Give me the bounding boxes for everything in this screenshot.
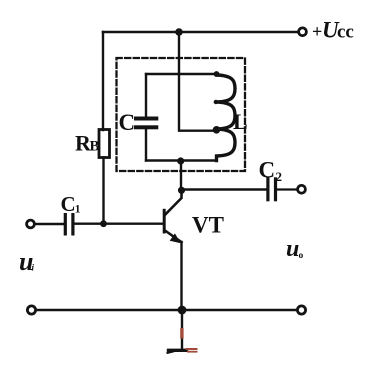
svg-text:C: C	[119, 110, 136, 135]
svg-text:cc: cc	[337, 22, 354, 43]
wire: input to C1	[35, 223, 63, 225]
wire: collector node to C2	[182, 188, 267, 190]
terminal: bottom-right	[297, 306, 305, 314]
wire: RB to base node	[102, 158, 104, 225]
wire: bottom node to ground	[181, 310, 183, 349]
svg-text:2: 2	[276, 169, 283, 184]
svg-text:L: L	[233, 109, 248, 134]
svg-text:C: C	[259, 158, 276, 183]
wire: left branch vertical (top rail to RB)	[102, 32, 104, 130]
red pen mark on ground wire	[180, 328, 183, 339]
node: base junction	[100, 220, 107, 227]
wire: C2 to output terminal	[277, 188, 297, 190]
terminal: bottom-left	[27, 306, 35, 314]
resistor RB	[99, 130, 110, 158]
capacitor C1	[64, 213, 67, 236]
node: inductor tap junction	[213, 126, 221, 134]
terminal: +Ucc	[299, 28, 307, 36]
svg-text:VT: VT	[192, 213, 224, 238]
red pen mark beside ground bar	[186, 348, 198, 350]
wire: tank bottom	[146, 159, 217, 161]
ground	[169, 349, 187, 352]
capacitor C (tank)	[134, 117, 158, 121]
wire: C bottom lead	[145, 129, 147, 160]
capacitor C2	[266, 177, 269, 201]
svg-text:B: B	[90, 139, 100, 155]
node: collector junction	[178, 187, 185, 194]
terminal: input (top-left)	[27, 220, 35, 228]
node: bottom rail junction	[178, 306, 187, 315]
svg-text:i: i	[32, 263, 35, 273]
transistor VT (NPN)	[163, 209, 166, 234]
svg-text:1: 1	[75, 204, 81, 216]
svg-text:C: C	[61, 192, 76, 216]
wire: tank top	[146, 73, 217, 75]
terminal: output (right)	[298, 185, 306, 193]
wire: C1 to transistor base	[75, 222, 164, 224]
svg-text:u: u	[286, 236, 299, 262]
wire: collector node up to tank bottom	[180, 161, 182, 190]
node: top rail junction	[175, 28, 183, 36]
wire: top rail down into tank (center feed)	[179, 32, 214, 131]
dashed box: LC tank enclosure	[117, 58, 246, 171]
svg-text:+: +	[312, 22, 322, 42]
inductor L	[217, 74, 236, 161]
svg-text:o: o	[299, 251, 304, 261]
wire: C top lead	[145, 74, 147, 117]
node: tank bottom junction	[177, 157, 184, 164]
node: tank top-right corner dot	[214, 71, 220, 77]
node: inductor cusp blob	[214, 100, 218, 104]
wire: emitter down to bottom rail	[180, 242, 182, 310]
wire: +Ucc top rail	[103, 31, 298, 34]
wire: bottom rail	[36, 309, 297, 311]
